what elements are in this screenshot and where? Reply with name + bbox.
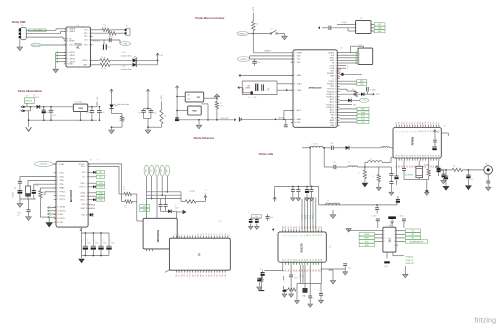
wire molex — [26, 103, 28, 107]
CBUS net arrows to ground — [55, 52, 57, 66]
svg-text:12: 12 — [203, 233, 205, 235]
red label SS — [340, 103, 353, 105]
svg-text:12: 12 — [425, 130, 427, 132]
svg-text:P2: P2 — [206, 275, 208, 277]
decoupling caps row below U3 — [80, 229, 82, 231]
svg-text:OSC2: OSC2 — [60, 176, 64, 178]
wire diag — [165, 270, 169, 273]
svg-text:25MHz: 25MHz — [12, 192, 14, 198]
wire to resistor — [180, 192, 182, 202]
svg-text:U8: U8 — [389, 225, 391, 227]
wire — [252, 13, 254, 22]
green boxes pair — [140, 204, 150, 207]
svg-text:28: 28 — [423, 155, 425, 157]
svg-text:L5: L5 — [327, 201, 329, 203]
svg-text:D2: D2 — [288, 226, 290, 228]
svg-text:U7: U7 — [444, 125, 446, 127]
svg-text:4: 4 — [384, 241, 385, 243]
polarized cap right — [396, 161, 398, 176]
ground — [17, 47, 23, 51]
svg-text:D8: D8 — [304, 226, 306, 228]
svg-text:17: 17 — [285, 259, 287, 261]
svg-text:P8: P8 — [222, 275, 224, 277]
svg-text:PD3/INT1: PD3/INT1 — [327, 84, 334, 86]
svg-text:25: 25 — [307, 259, 309, 261]
cap C29 100p — [290, 265, 292, 275]
svg-text:U6: U6 — [329, 247, 331, 249]
wire in 2 — [177, 110, 188, 112]
svg-text:7: 7 — [412, 131, 414, 132]
svg-text:P4: P4 — [187, 275, 189, 277]
polarized cap left 1 — [250, 218, 252, 219]
svg-text:D6: D6 — [299, 226, 301, 228]
polarized cap rf2 — [467, 170, 469, 175]
svg-text:LLC: LLC — [390, 237, 392, 242]
ground below crystal loop — [426, 180, 428, 191]
svg-text:D2: D2 — [316, 226, 318, 228]
resistor R1 27 — [102, 28, 110, 31]
ground arrow — [78, 259, 85, 264]
svg-text:17: 17 — [217, 233, 219, 235]
resistor R10b 2k — [122, 201, 125, 203]
svg-text:1: 1 — [396, 131, 398, 132]
pullup rail — [204, 97, 217, 99]
svg-text:16MHz: 16MHz — [245, 88, 251, 90]
svg-text:LORA_TX: LORA_TX — [405, 259, 414, 262]
connector J2 RJ45 HanRun — [143, 218, 177, 249]
svg-text:28: 28 — [316, 259, 318, 261]
svg-text:11: 11 — [86, 208, 88, 210]
inductor L2 — [381, 147, 390, 148]
svg-text:10u: 10u — [102, 112, 105, 114]
svg-text:13: 13 — [428, 130, 430, 132]
svg-text:4: 4 — [86, 177, 87, 179]
svg-text:2: 2 — [285, 235, 287, 236]
svg-text:20: 20 — [401, 155, 403, 157]
wire — [53, 163, 56, 165]
svg-text:P: P — [50, 212, 51, 214]
svg-text:29: 29 — [425, 155, 427, 157]
svg-text:CBUS0: CBUS0 — [69, 52, 74, 54]
svg-text:13: 13 — [335, 84, 337, 86]
svg-text:100n: 100n — [86, 112, 90, 114]
IC U8 level shifter — [383, 227, 396, 252]
wire XTAL2 — [277, 89, 293, 91]
capacitor C22 100n — [100, 232, 102, 234]
capacitor C25 — [297, 187, 299, 190]
svg-text:CBUS4: CBUS4 — [82, 60, 87, 62]
svg-text:P7: P7 — [195, 275, 197, 277]
svg-text:RESET: RESET — [265, 51, 272, 53]
svg-text:USBDM: USBDM — [69, 29, 75, 31]
u8 bottom ground — [386, 252, 388, 258]
svg-text:15: 15 — [335, 89, 337, 91]
svg-text:T0/XCK: T0/XCK — [328, 81, 335, 83]
svg-text:TPIN+: TPIN+ — [60, 180, 65, 182]
capacitor C14 — [285, 119, 287, 125]
inductor L1 — [302, 147, 310, 149]
svg-text:3: 3 — [356, 31, 357, 33]
svg-text:B3: B3 — [412, 238, 414, 240]
svg-text:P0: P0 — [176, 275, 178, 277]
svg-text:fritzing: fritzing — [475, 315, 497, 324]
svg-text:DIO1: DIO1 — [305, 215, 307, 219]
wire — [323, 147, 332, 149]
svg-text:12: 12 — [335, 81, 337, 83]
capacitor C8 — [98, 107, 100, 111]
ISP pins — [356, 51, 358, 53]
svg-text:8: 8 — [302, 235, 304, 236]
regulator IC2 3V3 box — [185, 92, 204, 102]
wire — [252, 31, 254, 34]
svg-text:G2: G2 — [288, 269, 290, 271]
svg-text:L4: L4 — [370, 159, 372, 161]
svg-text:TPOUT+: TPOUT+ — [60, 195, 66, 197]
svg-text:24: 24 — [412, 155, 414, 157]
svg-text:RESET: RESET — [241, 59, 248, 61]
svg-text:LEDA: LEDA — [90, 203, 96, 206]
svg-text:+3V3_ETH: +3V3_ETH — [220, 118, 230, 120]
svg-text:27: 27 — [313, 259, 315, 261]
svg-text:1k: 1k — [124, 119, 126, 121]
switch S1 — [270, 33, 272, 35]
svg-text:10u: 10u — [260, 269, 263, 271]
svg-text:3: 3 — [384, 238, 385, 240]
svg-text:3: 3 — [288, 235, 290, 236]
svg-text:MOLEX: MOLEX — [25, 101, 32, 103]
svg-text:25: 25 — [415, 155, 417, 157]
+3V3 arrow lora — [274, 197, 276, 202]
svg-text:D1: D1 — [285, 226, 287, 228]
ground 2 — [26, 217, 32, 221]
svg-text:TPOUT: TPOUT — [79, 187, 84, 189]
ground rail — [29, 119, 97, 121]
IC U6 SX1276 — [278, 232, 326, 262]
svg-text:2: 2 — [86, 166, 87, 168]
crystal X3 black box — [304, 265, 306, 288]
svg-text:100p: 100p — [294, 278, 298, 280]
svg-text:RESET: RESET — [297, 53, 302, 55]
svg-text:PD0/RXD: PD0/RXD — [327, 91, 335, 93]
svg-text:19: 19 — [399, 155, 401, 157]
svg-text:INT: INT — [99, 172, 102, 174]
svg-text:+5V: +5V — [97, 96, 99, 100]
svg-text:ALIMENTATION: ALIMENTATION — [410, 240, 424, 243]
svg-text:Partie USB: Partie USB — [12, 20, 26, 24]
svg-text:R4 1k: R4 1k — [101, 68, 106, 70]
svg-text:2: 2 — [336, 55, 337, 57]
svg-text:C19: C19 — [333, 162, 336, 164]
svg-text:19: 19 — [222, 233, 224, 235]
crystal cluster 32k — [403, 161, 405, 169]
svg-text:+3V3: +3V3 — [253, 6, 255, 12]
svg-text:18: 18 — [288, 259, 290, 261]
polarized cap 2 — [258, 277, 260, 279]
wire AVCC — [283, 110, 285, 119]
svg-text:1N4001: 1N4001 — [33, 97, 39, 99]
svg-text:20: 20 — [335, 102, 337, 104]
svg-text:CLKOUT: CLKOUT — [78, 164, 84, 166]
svg-text:12: 12 — [86, 215, 88, 217]
svg-text:P2: P2 — [181, 275, 183, 277]
ground rail below caps — [82, 255, 110, 257]
capacitor C12 22p — [261, 84, 263, 90]
cap C31 — [320, 284, 322, 294]
svg-text:1: 1 — [86, 164, 87, 166]
svg-text:RTS: RTS — [84, 36, 87, 38]
svg-text:4: 4 — [67, 41, 68, 43]
capacitor C7 — [91, 107, 93, 111]
ground right — [332, 277, 334, 281]
capacitor C17a — [160, 199, 162, 205]
svg-text:27: 27 — [335, 120, 337, 122]
resistor R4 1k — [100, 63, 110, 66]
cap column left — [20, 176, 56, 178]
svg-text:22p: 22p — [268, 88, 270, 91]
J3 bottom pins — [175, 270, 177, 272]
svg-text:ICP1: ICP1 — [330, 71, 334, 73]
svg-text:17: 17 — [335, 94, 337, 96]
svg-text:U4: U4 — [219, 221, 221, 223]
svg-text:6: 6 — [336, 65, 337, 67]
svg-text:TEST: TEST — [83, 65, 87, 67]
ground arrow alim — [26, 127, 32, 131]
ground arrow big — [40, 216, 49, 218]
svg-text:29: 29 — [335, 125, 337, 127]
net label SDA box — [371, 27, 374, 29]
resistor R11 49R9 — [181, 201, 185, 203]
IC U1 FT232RL — [66, 27, 91, 67]
svg-text:D4: D4 — [321, 226, 323, 228]
svg-text:10u: 10u — [138, 113, 141, 115]
wire in — [177, 96, 185, 98]
wire — [144, 118, 151, 120]
svg-text:20: 20 — [225, 233, 227, 235]
svg-text:22p: 22p — [254, 97, 257, 99]
U3 right net boxes — [90, 171, 93, 173]
svg-text:Led verte 3mm: Led verte 3mm — [121, 54, 132, 57]
svg-text:VSS: VSS — [60, 222, 63, 224]
net label box A — [340, 108, 358, 110]
svg-text:G2: G2 — [316, 269, 318, 271]
net arrow — [318, 26, 320, 29]
net label +5V USB — [29, 29, 47, 32]
svg-text:6: 6 — [67, 52, 68, 54]
svg-text:OC1B: OC1B — [330, 65, 334, 67]
svg-text:26: 26 — [335, 117, 337, 119]
wires below U6 — [299, 265, 301, 284]
rail to resistor — [148, 126, 162, 128]
U2 right pins — [337, 52, 339, 54]
capacitor C18 — [330, 146, 332, 150]
svg-text:SX1276: SX1276 — [300, 243, 304, 253]
svg-text:D3: D3 — [291, 226, 293, 228]
antenna connector P1 — [484, 166, 493, 175]
wire CBUS TX led — [91, 59, 101, 61]
svg-text:P6: P6 — [192, 275, 194, 277]
wire USB D+ to U1 — [26, 33, 60, 35]
svg-text:100n: 100n — [111, 243, 115, 245]
svg-text:8: 8 — [86, 196, 87, 198]
svg-text:D0: D0 — [282, 226, 284, 228]
svg-text:18: 18 — [335, 97, 337, 99]
crystal Q2 — [28, 179, 56, 181]
ground arrow right — [183, 210, 187, 214]
molex pins — [21, 106, 23, 108]
svg-text:PCINT6: PCINT6 — [328, 52, 334, 54]
wire — [144, 108, 151, 110]
ground rail bottom — [177, 119, 233, 121]
svg-text:C 100n: C 100n — [370, 89, 376, 91]
svg-text:SQW: SQW — [342, 22, 347, 24]
svg-text:9: 9 — [417, 131, 419, 132]
svg-text:24: 24 — [304, 259, 306, 261]
polarized cap rf1 — [445, 170, 447, 176]
wire — [250, 58, 293, 60]
wire DTR — [364, 93, 372, 95]
svg-text:REG: REG — [193, 110, 198, 112]
ferrite bead FB1 — [103, 40, 105, 44]
svg-text:28: 28 — [335, 123, 337, 125]
short wires rows — [340, 65, 347, 67]
diode D6 — [346, 146, 349, 150]
net label oval USBVCC — [120, 42, 131, 46]
wires mcu to isp — [340, 52, 356, 54]
svg-text:16: 16 — [282, 259, 284, 261]
svg-text:10: 10 — [198, 233, 200, 235]
capacitor C19 — [324, 166, 334, 168]
resistor R5 1k — [120, 116, 123, 122]
svg-text:100u: 100u — [45, 112, 49, 114]
U2 left pins — [291, 52, 293, 54]
wire USB VBUS — [26, 29, 56, 31]
wire — [19, 40, 21, 47]
svg-text:DIO0: DIO0 — [302, 215, 304, 219]
svg-text:30: 30 — [321, 259, 323, 261]
battery bracket symbol — [238, 117, 241, 121]
svg-text:100n: 100n — [87, 243, 91, 245]
resistor R6 10k — [215, 101, 218, 108]
capacitor C5 100u — [43, 107, 45, 110]
svg-text:2: 2 — [384, 234, 385, 236]
svg-text:+3V3: +3V3 — [161, 95, 163, 101]
svg-text:7: 7 — [86, 193, 87, 195]
svg-text:GND: GND — [378, 31, 383, 33]
svg-text:LORA_RX: LORA_RX — [405, 255, 414, 258]
svg-text:CBUS2: CBUS2 — [69, 58, 74, 60]
svg-text:B1: B1 — [412, 230, 414, 232]
net label SCL box — [371, 23, 374, 25]
svg-text:3: 3 — [86, 172, 87, 174]
black cap — [443, 171, 445, 174]
svg-text:6: 6 — [89, 60, 90, 62]
svg-text:16: 16 — [214, 233, 216, 235]
svg-text:4: 4 — [404, 131, 406, 132]
diode D2 — [340, 93, 362, 95]
net label GND box — [371, 30, 374, 32]
svg-text:27: 27 — [420, 155, 422, 157]
U7 top pins — [396, 125, 398, 128]
svg-text:17: 17 — [439, 130, 441, 132]
svg-text:MOSI: MOSI — [364, 234, 369, 236]
ground — [257, 287, 262, 290]
wire RXD — [91, 32, 109, 34]
svg-text:U5: U5 — [360, 18, 362, 20]
svg-text:WOL: WOL — [81, 166, 85, 168]
svg-text:AREF: AREF — [279, 116, 284, 119]
svg-text:18: 18 — [396, 155, 398, 157]
u8 right net boxes — [398, 230, 405, 232]
net label TXD — [340, 83, 357, 85]
svg-text:P3: P3 — [209, 275, 211, 277]
capacitor C20 100n — [85, 232, 87, 234]
net label box C — [340, 115, 358, 117]
svg-text:P: P — [50, 209, 51, 211]
wire — [111, 109, 113, 114]
svg-text:LEDB: LEDB — [90, 208, 96, 210]
wire — [277, 33, 284, 35]
wire — [121, 122, 123, 128]
svg-text:P6: P6 — [439, 122, 441, 124]
inverted ground IC2 — [216, 97, 218, 99]
wire top right long 2 — [88, 165, 119, 167]
svg-text:5: 5 — [67, 45, 68, 47]
svg-text:D4: D4 — [293, 226, 295, 228]
svg-text:P8: P8 — [198, 275, 200, 277]
ground — [198, 120, 200, 125]
capacitor C3 100n — [108, 38, 110, 42]
svg-text:C 100n: C 100n — [398, 216, 404, 218]
svg-text:TPIN+: TPIN+ — [80, 183, 85, 185]
svg-text:Partie LoRa: Partie LoRa — [259, 152, 274, 156]
connector J3 header — [169, 238, 230, 270]
below U6 cap chain 1 — [282, 265, 284, 271]
IC U5 RTC — [356, 21, 372, 34]
U1 right pins — [91, 29, 93, 31]
resistor R7 10k — [252, 22, 255, 31]
svg-text:G1: G1 — [313, 269, 315, 271]
svg-text:2: 2 — [67, 31, 68, 33]
svg-text:100n: 100n — [270, 217, 274, 219]
capacitor C21 — [390, 176, 392, 182]
svg-text:1: 1 — [282, 235, 284, 236]
ground arrow rf1 — [443, 186, 450, 191]
svg-text:LORA_RST: LORA_RST — [405, 262, 415, 265]
capacitor C9 — [143, 109, 145, 111]
svg-text:D9: D9 — [307, 226, 309, 228]
wire top right long — [88, 163, 122, 165]
u8 bottom right labels — [392, 252, 394, 256]
svg-text:4: 4 — [291, 235, 293, 236]
wire reg2 out — [201, 103, 208, 105]
capacitor C11 — [254, 59, 256, 61]
wire — [41, 44, 66, 46]
+5V arrow 3v3 regulator — [176, 86, 178, 91]
svg-text:8: 8 — [192, 234, 194, 235]
svg-text:10: 10 — [420, 130, 422, 132]
capacitor C15 100n — [365, 87, 367, 91]
bus wires down — [145, 176, 147, 218]
svg-text:21: 21 — [404, 155, 406, 157]
LED power green — [109, 105, 113, 109]
svg-text:10k: 10k — [164, 116, 167, 118]
bottom rail — [20, 198, 36, 200]
svg-text:TPIN-: TPIN- — [60, 184, 65, 186]
wire — [248, 33, 270, 35]
U7 inner cap — [433, 139, 437, 141]
capacitor C27 — [311, 187, 313, 190]
svg-text:10: 10 — [86, 204, 88, 206]
